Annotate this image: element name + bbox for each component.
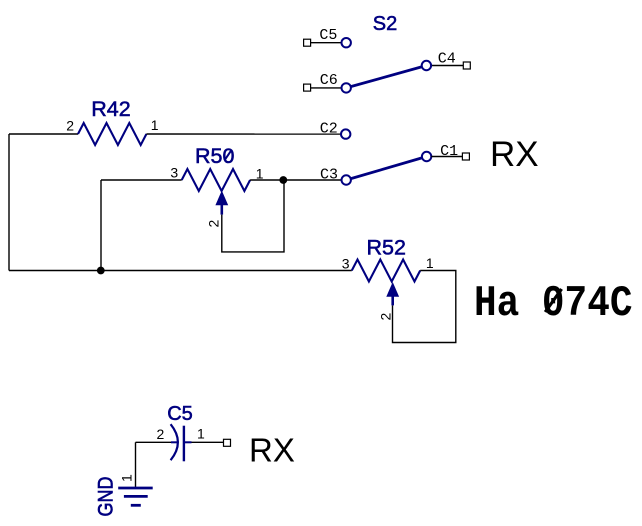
potentiometer R52 wiper arrow bbox=[386, 282, 399, 297]
capacitor C5 straight plate bbox=[183, 426, 185, 462]
svg-text:1: 1 bbox=[151, 117, 159, 133]
ground bar 3 bbox=[131, 504, 141, 507]
potentiometer R50 wiper stem bbox=[221, 204, 224, 215]
svg-text:C4: C4 bbox=[438, 50, 456, 67]
value label slashed zero bbox=[545, 289, 561, 312]
switch S2 contact circle C4 bbox=[422, 61, 431, 70]
capacitor C5 pin 2 stub bbox=[171, 441, 178, 443]
junction bbox=[97, 267, 105, 275]
svg-text:2: 2 bbox=[377, 313, 393, 321]
wire bbox=[431, 65, 463, 67]
wire bbox=[146, 133, 341, 135]
switch S2 contact circle C6 bbox=[342, 83, 351, 92]
ground bar 2 bbox=[124, 495, 148, 498]
svg-text:1: 1 bbox=[426, 255, 434, 271]
potentiometer R50 wiper arrow bbox=[215, 191, 228, 206]
svg-text:C5: C5 bbox=[167, 403, 193, 425]
svg-text:Ha 074C: Ha 074C bbox=[474, 280, 632, 329]
pin C6 terminal square bbox=[304, 84, 311, 91]
resistor R42 body bbox=[78, 123, 146, 145]
switch S2 contact circle C1 bbox=[422, 152, 431, 161]
wire bbox=[222, 180, 284, 252]
svg-text:2: 2 bbox=[157, 426, 165, 442]
wire bbox=[311, 87, 342, 89]
pin C5 terminal square bbox=[304, 39, 311, 46]
svg-text:2: 2 bbox=[206, 220, 222, 228]
potentiometer R52 body bbox=[352, 260, 420, 282]
wire bbox=[393, 271, 456, 343]
switch S2 contact circle C5 bbox=[342, 38, 351, 47]
svg-text:C6: C6 bbox=[320, 72, 338, 89]
wire bbox=[100, 180, 102, 271]
svg-text:RX: RX bbox=[490, 135, 539, 174]
switch S2 blade C3-C1 bbox=[346, 157, 426, 181]
svg-text:R42: R42 bbox=[91, 97, 130, 121]
wire bbox=[192, 441, 224, 443]
svg-text:1: 1 bbox=[119, 474, 135, 482]
wire bbox=[311, 42, 342, 44]
potentiometer R52 wiper stem bbox=[391, 296, 394, 306]
pin C4 terminal square bbox=[463, 62, 470, 69]
switch S2 contact circle C3 bbox=[342, 175, 351, 184]
switch S2 contact circle C2 bbox=[341, 129, 350, 138]
svg-text:3: 3 bbox=[342, 256, 350, 272]
wire bbox=[250, 179, 341, 181]
svg-text:R52: R52 bbox=[366, 236, 405, 260]
svg-text:3: 3 bbox=[170, 165, 178, 181]
svg-text:C2: C2 bbox=[320, 121, 338, 138]
svg-text:C3: C3 bbox=[320, 166, 338, 183]
svg-text:GND: GND bbox=[94, 477, 118, 517]
label R50 slashed zero bbox=[225, 150, 232, 160]
wire bbox=[135, 442, 137, 488]
svg-text:1: 1 bbox=[256, 166, 264, 182]
svg-text:S2: S2 bbox=[373, 13, 397, 35]
svg-text:C5: C5 bbox=[319, 27, 337, 44]
svg-text:RX: RX bbox=[249, 432, 295, 469]
capacitor C5 pin 1 stub bbox=[184, 441, 192, 443]
wire bbox=[136, 441, 172, 443]
wire bbox=[9, 133, 78, 135]
wire bbox=[431, 156, 462, 158]
wire bbox=[101, 179, 182, 181]
svg-text:2: 2 bbox=[66, 118, 74, 134]
potentiometer R50 body bbox=[182, 169, 250, 191]
svg-text:C1: C1 bbox=[440, 143, 458, 160]
pin C1 terminal square bbox=[462, 153, 469, 160]
junction bbox=[279, 176, 287, 184]
terminal square RX bbox=[224, 439, 231, 446]
svg-text:1: 1 bbox=[197, 426, 205, 442]
wire bbox=[8, 134, 10, 271]
ground bar 1 bbox=[118, 487, 153, 490]
wire bbox=[9, 270, 352, 272]
capacitor C5 curved plate bbox=[171, 424, 178, 460]
switch S2 blade C6-C4 bbox=[346, 66, 426, 88]
